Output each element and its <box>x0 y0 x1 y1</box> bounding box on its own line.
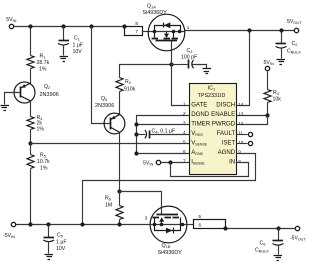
wire pin7 node to IN pin8 <box>171 163 249 177</box>
wire VSENSE long line to IC pin5 <box>31 143 190 145</box>
svg-text:1 μF: 1 μF <box>56 240 66 246</box>
junction dot TIMER <box>134 122 138 126</box>
svg-text:ISET: ISET <box>222 140 236 147</box>
svg-text:5: 5 <box>183 140 186 145</box>
svg-text:13: 13 <box>238 111 244 116</box>
svg-text:1: 1 <box>187 25 190 30</box>
svg-text:C5: C5 <box>57 233 63 239</box>
svg-text:1%: 1% <box>37 127 45 133</box>
wire DGND net vertical <box>137 116 190 154</box>
junction dot VSENSE node <box>28 141 32 145</box>
svg-text:28.7k: 28.7k <box>37 60 50 66</box>
svg-text:TPS2331ID: TPS2331ID <box>198 93 226 99</box>
wire gate node to IC pin1 GATE <box>172 41 190 106</box>
svg-text:R5: R5 <box>40 153 46 159</box>
svg-text:IN: IN <box>229 159 235 166</box>
junction dot C6 <box>276 226 280 230</box>
ground C5 <box>45 255 54 260</box>
svg-text:AGND: AGND <box>218 149 236 156</box>
svg-text:910k: 910k <box>124 87 136 93</box>
svg-text:GATE: GATE <box>191 102 207 109</box>
wire Q3 collector down <box>119 133 121 192</box>
svg-text:2N3906: 2N3906 <box>40 92 59 98</box>
wire Q2 base <box>5 93 21 105</box>
wire Q3 base feed <box>92 27 111 124</box>
svg-text:10V: 10V <box>56 246 66 252</box>
svg-text:Q2: Q2 <box>44 84 50 90</box>
svg-text:R1: R1 <box>40 54 46 60</box>
terminal -5VIN <box>11 222 15 226</box>
svg-text:1 μF: 1 μF <box>73 43 83 49</box>
svg-text:IC1: IC1 <box>208 86 216 92</box>
svg-text:2N3906: 2N3906 <box>95 103 114 109</box>
capacitor C5 1uF <box>48 225 50 238</box>
junction dot R5 bottom <box>28 222 32 226</box>
resistor R1 28.7k <box>27 56 34 69</box>
transistor Q3 2N3906 <box>104 113 125 134</box>
svg-text:Q1B: Q1B <box>162 243 171 249</box>
ground C2 <box>277 60 286 65</box>
node -5VIN bottom rail <box>16 224 150 226</box>
junction dot C4 left <box>134 132 138 136</box>
svg-text:PWRGD: PWRGD <box>212 121 236 128</box>
wire top rail right of Q1A <box>185 30 295 32</box>
svg-text:DGND: DGND <box>191 111 210 118</box>
svg-text:R2: R2 <box>125 79 131 85</box>
svg-text:-5VIN: -5VIN <box>3 233 15 239</box>
svg-text:Q3: Q3 <box>101 96 107 102</box>
transistor Q1A Si4936DY <box>148 14 185 51</box>
junction dot AGND rail <box>80 222 84 226</box>
svg-text:Q1A: Q1A <box>147 4 156 10</box>
terminal -5VOUT <box>295 226 299 230</box>
wire to Q1B gate <box>120 192 162 215</box>
wire R4 to node <box>30 130 32 144</box>
resistor R4 2k <box>27 117 34 130</box>
wire R1 top <box>30 27 32 56</box>
wire node to R5 <box>30 144 32 155</box>
pin 10 ISET stub <box>237 143 248 145</box>
junction dot Q3 base feed <box>89 24 93 28</box>
svg-text:1%: 1% <box>39 67 47 73</box>
capacitor C3 100pF <box>172 64 188 66</box>
pin box 5/6 Q1B <box>187 224 194 226</box>
junction dot drain box Q1A <box>122 24 126 28</box>
svg-text:10k: 10k <box>273 97 282 103</box>
svg-text:10.7k: 10.7k <box>37 159 50 165</box>
wire R5 to -5VIN rail <box>30 169 32 225</box>
svg-text:C3: C3 <box>187 48 193 54</box>
resistor R5 10.7k <box>27 155 34 169</box>
junction dot DISCH <box>247 28 251 32</box>
svg-text:-5VOUT: -5VOUT <box>290 235 306 241</box>
svg-text:100 pF: 100 pF <box>181 55 197 61</box>
ground C3 <box>203 69 212 74</box>
wire TIMER to DGND net <box>137 124 190 126</box>
junction dot gate node <box>169 62 173 66</box>
capacitor C6 CBULK <box>278 229 280 241</box>
svg-text:1M: 1M <box>105 203 112 209</box>
svg-text:C6: C6 <box>260 241 266 247</box>
ground C6 <box>274 256 283 261</box>
svg-text:3: 3 <box>145 215 148 220</box>
svg-text:1: 1 <box>183 102 186 107</box>
wire gate node Q1A <box>120 65 172 78</box>
svg-text:1%: 1% <box>40 166 48 172</box>
svg-text:5VIN: 5VIN <box>6 17 16 23</box>
svg-text:C2: C2 <box>292 41 298 47</box>
svg-text:Si4936DY: Si4936DY <box>158 250 183 256</box>
pin box 8/7 Q1A <box>125 27 143 36</box>
junction dot C5 <box>46 222 50 226</box>
pin 11 FAULT stub <box>237 134 248 136</box>
svg-text:TIMER: TIMER <box>191 121 211 128</box>
junction dot C1 top <box>61 24 65 28</box>
svg-text:FAULT: FAULT <box>217 130 236 137</box>
junction dot ENABLE <box>265 113 269 117</box>
transistor Q2 2N3906 <box>14 82 35 103</box>
terminal 5VIN top-left <box>9 24 13 28</box>
svg-text:5VIN: 5VIN <box>264 60 274 66</box>
svg-text:ENABLE: ENABLE <box>211 111 235 118</box>
junction dot R6 bottom <box>117 222 121 226</box>
svg-text:5: 5 <box>199 214 202 219</box>
node 5VIN top-left rail <box>14 26 125 28</box>
wire PWRGD to ENABLE node <box>237 116 268 125</box>
svg-text:Si4936DY: Si4936DY <box>143 10 168 16</box>
ground Q2 base <box>1 106 10 111</box>
junction dot AGND net <box>134 151 138 155</box>
terminal 5VOUT <box>294 28 298 32</box>
resistor R2 910k <box>116 78 123 92</box>
svg-text:7: 7 <box>135 29 138 34</box>
resistor R6 1M <box>119 192 121 206</box>
ground C1 <box>60 57 69 62</box>
capacitor C1 1uF <box>63 27 65 41</box>
svg-text:14: 14 <box>238 102 244 107</box>
svg-text:DISCH: DISCH <box>216 102 235 109</box>
capacitor C2 CBULK <box>281 31 283 44</box>
wire box to Q1A <box>143 31 149 33</box>
transistor Q1B Si4936DY <box>150 206 187 243</box>
svg-text:5VIN: 5VIN <box>143 161 153 167</box>
svg-text:10V: 10V <box>73 49 83 55</box>
svg-text:CBULK: CBULK <box>287 49 301 55</box>
svg-text:12: 12 <box>238 121 244 126</box>
svg-text:R3: R3 <box>273 90 279 96</box>
svg-text:R6: R6 <box>105 196 111 202</box>
junction dot C2 <box>279 28 283 32</box>
capacitor C4 0.1uF <box>137 134 146 136</box>
svg-text:CBULK: CBULK <box>255 248 269 254</box>
resistor R3 10k <box>267 72 269 90</box>
wire R1 to Q2 emitter <box>30 69 32 84</box>
svg-text:C4, 0.1 μF: C4, 0.1 μF <box>152 128 176 134</box>
svg-text:8: 8 <box>135 21 138 26</box>
svg-text:C1: C1 <box>74 36 80 42</box>
wire 5VIN to ISENSE pin7 <box>161 162 190 164</box>
wire R3 to ENABLE <box>237 103 268 116</box>
wire R2 to Q3 emitter <box>119 92 121 115</box>
wire Q2 collector to R4 <box>30 102 32 117</box>
junction dot Q1B box out <box>223 226 227 230</box>
junction dot pin7 <box>168 160 172 164</box>
op-amp IC1 TPS2331ID <box>190 84 237 175</box>
svg-text:5VOUT: 5VOUT <box>287 19 302 25</box>
wire Q1B output to -5VOUT <box>226 228 296 230</box>
wire DISCH to IC pin14 <box>237 31 250 106</box>
svg-text:6: 6 <box>199 223 202 228</box>
junction dot R1 top <box>28 24 32 28</box>
junction dot R6/gate Q1B <box>117 189 121 193</box>
wire AGND pin9 wrap to -5VIN rail <box>83 154 256 225</box>
